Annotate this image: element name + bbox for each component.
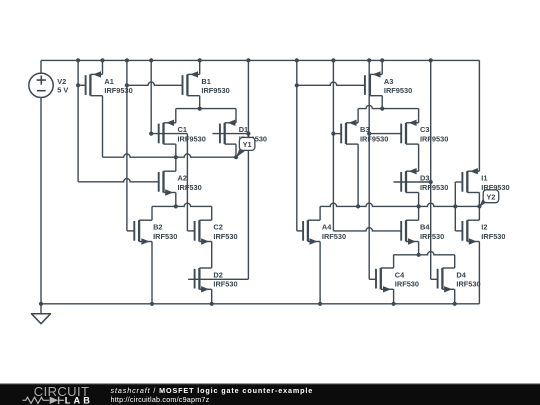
wire D4 gate (431, 278, 438, 280)
junction inverter drains (Y2 flag) (477, 204, 481, 208)
transistor B4 (NMOS IRF530) (401, 220, 418, 245)
footer bar (0, 384, 540, 405)
svg-text:B4: B4 (420, 223, 430, 232)
wire C3 gate (369, 133, 401, 135)
junction top rail x=382.2 (380, 58, 384, 62)
svg-text:stashcraft / MOSFET logic gate: stashcraft / MOSFET logic gate counter-e… (111, 386, 314, 395)
wire D3 gate stub to node D2nd (394, 181, 431, 183)
transistor I2 (NMOS IRF530) (462, 220, 479, 245)
junction bottom rail x=41 (39, 302, 43, 306)
svg-text:IRF530: IRF530 (456, 280, 480, 289)
wire D1 gate stub to node D (212, 133, 248, 135)
voltage source V2 5V (29, 60, 53, 303)
transistor B1 (PMOS IRF9530) (183, 71, 200, 96)
svg-text:IRF530: IRF530 (420, 232, 444, 241)
svg-text:Y1: Y1 (243, 140, 252, 149)
node Y2 output flag (479, 190, 498, 207)
junction top rail x=78.1 (76, 58, 80, 62)
transistor C1 (PMOS IRF9530) (159, 120, 176, 145)
wire C3 drain to D3 source (418, 144, 420, 171)
transistor A1 (PMOS IRF9530) (86, 71, 103, 96)
transistor C2 (NMOS IRF530) (195, 220, 212, 245)
transistor B3 (PMOS IRF9530) (341, 120, 358, 145)
wire node D2nd vertical (430, 60, 432, 279)
wire top rail VDD (41, 59, 479, 61)
svg-text:IRF9530: IRF9530 (420, 183, 448, 192)
junction A2 source on B2-C2 bus (174, 204, 178, 208)
transistor C3 (PMOS IRF9530) (401, 120, 418, 145)
wire I2 gate (455, 230, 462, 232)
wire B3 source up (357, 109, 359, 123)
junction bottom rail x=320.1 (318, 302, 322, 306)
junction top rail x=199.7 (198, 58, 202, 62)
junction top rail x=430.7 (429, 58, 433, 62)
wire C2 gate vertical (186, 134, 188, 231)
wire B3-C3 source bus (358, 105, 419, 108)
svg-text:IRF530: IRF530 (153, 232, 177, 241)
junction inverter gate tap (453, 204, 457, 208)
wire A4 drain up (319, 206, 321, 220)
svg-text:http://circuitlab.com/c9apm7z: http://circuitlab.com/c9apm7z (111, 395, 210, 404)
transistor C4 (NMOS IRF530) (376, 268, 394, 293)
wire C1-D1 source bus (176, 108, 236, 110)
svg-text:LAB: LAB (65, 395, 93, 405)
wire B1 drain to PMOS pair rail (199, 96, 201, 109)
wire D2 source to rail (211, 289, 213, 304)
wire A2 gate bus (78, 179, 159, 182)
wire C4 source to rail (393, 289, 395, 304)
wire C2 source to D2 drain (211, 242, 213, 269)
wire B1 source to rail (199, 60, 201, 74)
wire node Y1 bus (103, 154, 237, 157)
wire node B2nd vertical (332, 60, 334, 231)
wire D2 gate stub (188, 278, 248, 280)
junction Y1 bus / A2 drain (174, 155, 178, 159)
svg-text:IRF9530: IRF9530 (360, 134, 388, 143)
wire B4 gate (333, 228, 401, 231)
junction bottom rail x=211.7 (210, 302, 214, 306)
transistor D3 (PMOS IRF9530) (401, 168, 418, 193)
junction bottom rail x=454.7 (453, 302, 457, 306)
svg-text:IRF9530: IRF9530 (384, 86, 412, 95)
wire I1 gate (455, 181, 462, 183)
wire D3 drain down (418, 193, 420, 207)
junction bottom rail x=393.6 (392, 302, 396, 306)
wire bottom rail GND (41, 303, 479, 305)
wire node A vertical (77, 60, 79, 181)
junction node A / A1 gate (76, 83, 80, 87)
wire B2-C2 drain bus (152, 203, 212, 206)
junction top rail x=369.2 (367, 58, 371, 62)
wire I2 source to rail (478, 242, 480, 304)
wire rail to I1 source (478, 60, 480, 171)
transistor A4 (NMOS IRF530) (303, 220, 320, 245)
junction top rail x=333.4 (331, 58, 335, 62)
svg-text:C3: C3 (420, 125, 429, 134)
CircuitLab logo resistor + diode (23, 397, 65, 404)
wire B3 gate (333, 133, 341, 135)
wire B3 drain down (357, 144, 359, 206)
wire B2 drain up (151, 206, 153, 220)
svg-text:IRF530: IRF530 (395, 280, 419, 289)
svg-text:Y2: Y2 (486, 192, 495, 201)
svg-text:C4: C4 (395, 270, 405, 279)
svg-text:5 V: 5 V (57, 86, 68, 95)
svg-text:A4: A4 (322, 223, 332, 232)
svg-text:C2: C2 (213, 223, 222, 232)
transistor B2 (NMOS IRF530) (134, 220, 152, 245)
junction top rail x=126.9 (125, 58, 129, 62)
wire C3 source up (418, 109, 420, 123)
junction node D / D1 gate (246, 132, 250, 136)
wire C4-D4 drain bus (394, 252, 455, 255)
junction top rail x=248.4 (246, 58, 250, 62)
svg-text:D2: D2 (213, 270, 222, 279)
wire node D vertical (247, 60, 249, 279)
ground symbol (31, 304, 50, 324)
wire D1 source up (235, 109, 237, 123)
wire C1 source up (175, 109, 177, 123)
wire C4 gate (369, 278, 376, 280)
wire A2 source down (175, 193, 177, 207)
wire C2 drain up (211, 206, 213, 220)
junction Y1 bus / D1 drain (Y1 flag) (234, 155, 238, 159)
junction B3 drain on output bus (356, 204, 360, 208)
junction node C / C1 gate (149, 132, 153, 136)
wire A2 drain up (175, 157, 177, 171)
wire A3 gate (297, 82, 365, 85)
junction A3 drain on B3-C3 bus (380, 107, 384, 111)
wire B1 gate (127, 82, 183, 85)
svg-text:IRF530: IRF530 (213, 232, 237, 241)
wire A1 gate (78, 84, 86, 86)
wire A4 source to rail (319, 242, 321, 304)
svg-text:I2: I2 (481, 223, 487, 232)
node Y1 output flag (236, 138, 255, 158)
junction top rail x=151.2 (149, 58, 153, 62)
svg-text:A1: A1 (104, 77, 113, 86)
wire D1 drain down (235, 144, 237, 157)
svg-text:IRF9530: IRF9530 (420, 134, 448, 143)
wire C4 drain up (393, 255, 395, 268)
svg-text:IRF9530: IRF9530 (178, 134, 206, 143)
junction bottom rail x=152.0 (150, 302, 154, 306)
wire C2 gate (187, 230, 194, 232)
svg-text:A3: A3 (384, 77, 393, 86)
junction node D2nd / D3 gate (429, 180, 433, 184)
junction top rail x=102.5 (100, 58, 104, 62)
wire stage2 output bus (320, 203, 479, 206)
svg-text:D1: D1 (239, 125, 248, 134)
transistor A3 (PMOS IRF9530) (365, 71, 382, 96)
wire I1 drain to I2 drain (478, 193, 480, 221)
wire node A2nd vertical (296, 60, 298, 231)
wire node C2nd vertical (368, 60, 370, 279)
junction B1 drain on C1-D1 bus (198, 107, 202, 111)
wire B4 drain up (418, 206, 420, 220)
junction node B / B1 gate (125, 83, 129, 87)
svg-text:IRF9530: IRF9530 (104, 86, 132, 95)
svg-text:IRF530: IRF530 (481, 232, 505, 241)
svg-text:IRF530: IRF530 (213, 280, 237, 289)
svg-text:A2: A2 (178, 174, 187, 183)
svg-text:D3: D3 (420, 174, 429, 183)
svg-text:I1: I1 (481, 174, 487, 183)
svg-text:C1: C1 (178, 125, 187, 134)
junction node C2nd / C3 gate (367, 132, 371, 136)
transistor I1 (PMOS IRF9530) (462, 168, 479, 193)
wire A3 source to rail (381, 60, 383, 74)
svg-text:B1: B1 (201, 77, 210, 86)
transistor D2 (NMOS IRF530) (195, 268, 212, 293)
svg-text:D4: D4 (456, 270, 466, 279)
svg-text:B3: B3 (360, 125, 369, 134)
svg-text:IRF530: IRF530 (322, 232, 346, 241)
wire A1 source to rail (102, 60, 104, 74)
wire D4 drain up (454, 255, 456, 268)
wire C1 drain down (175, 144, 177, 157)
junction node A2nd / A3 gate (295, 83, 299, 87)
junction top rail x=296.8 (295, 58, 299, 62)
svg-text:IRF9530: IRF9530 (201, 86, 229, 95)
junction B4 source on C4-D4 bus (417, 253, 421, 257)
wire A3 drain down (381, 96, 383, 109)
wire B2 gate (127, 230, 134, 232)
junction D3 drain / B4 drain (417, 204, 421, 208)
junction node B2nd / B3 gate (331, 132, 335, 136)
transistor D1 (PMOS IRF9530) (220, 120, 236, 145)
wire node C vertical (150, 60, 152, 133)
wire D4 source to rail (454, 289, 456, 304)
wire A1 drain down (102, 96, 104, 158)
wire C1 gate (crosses C1) to C2 gate column (151, 133, 187, 135)
wire B4 source down (418, 242, 420, 255)
wire B2 source to rail (151, 242, 153, 304)
wire A4 gate (297, 230, 303, 232)
wire inverter gate vertical (454, 182, 456, 231)
svg-text:B2: B2 (153, 223, 162, 232)
transistor A2 (NMOS IRF530) (159, 171, 176, 196)
svg-text:V2: V2 (57, 77, 66, 86)
wire node B vertical (126, 60, 128, 231)
transistor D4 (NMOS IRF530) (438, 268, 455, 293)
svg-text:IRF530: IRF530 (178, 183, 202, 192)
